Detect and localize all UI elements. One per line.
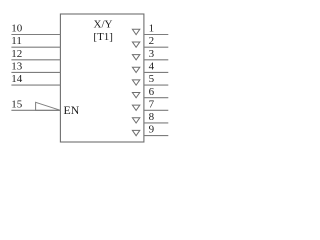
svg-text:[T1]: [T1]	[93, 31, 113, 43]
wire pin 5	[144, 84, 168, 86]
wire pin 15 (EN)	[11, 109, 60, 111]
wire pin 13	[11, 71, 60, 73]
svg-text:12: 12	[11, 48, 22, 60]
svg-text:3: 3	[149, 48, 155, 60]
wire pin 4	[144, 71, 168, 73]
wire pin 6	[144, 97, 168, 99]
wire pin 14	[11, 84, 60, 86]
three-state triangle out 8	[132, 118, 139, 123]
svg-text:8: 8	[149, 111, 155, 123]
svg-text:1: 1	[149, 23, 155, 35]
wire pin 11	[11, 46, 60, 48]
wire pin 10	[11, 34, 60, 36]
wire pin 3	[144, 59, 168, 61]
three-state triangle out 7	[132, 105, 139, 110]
svg-text:7: 7	[149, 98, 155, 110]
three-state triangle out 6	[132, 92, 139, 97]
svg-text:14: 14	[11, 73, 22, 85]
wire pin 1	[144, 34, 168, 36]
svg-text:4: 4	[149, 61, 155, 73]
svg-text:6: 6	[149, 86, 155, 98]
wire pin 7	[144, 109, 168, 111]
svg-text:2: 2	[149, 35, 155, 47]
wire pin 12	[11, 59, 60, 61]
svg-text:5: 5	[149, 73, 155, 85]
three-state triangle out 5	[132, 80, 139, 85]
svg-text:EN: EN	[64, 103, 80, 117]
three-state triangle out 4	[132, 67, 139, 72]
svg-text:9: 9	[149, 124, 155, 136]
svg-text:11: 11	[11, 35, 22, 47]
wire pin 2	[144, 46, 168, 48]
wire pin 9	[144, 135, 168, 137]
three-state triangle out 1	[132, 29, 139, 34]
svg-text:15: 15	[11, 98, 22, 110]
three-state triangle out 3	[132, 55, 139, 60]
svg-text:13: 13	[11, 61, 22, 73]
svg-text:X/Y: X/Y	[94, 19, 113, 31]
three-state triangle out 2	[132, 42, 139, 47]
wire pin 8	[144, 122, 168, 124]
svg-text:10: 10	[11, 23, 22, 35]
symbol body U1	[60, 14, 143, 142]
polarity triangle pin 15	[36, 102, 61, 110]
three-state triangle out 9	[132, 130, 139, 135]
